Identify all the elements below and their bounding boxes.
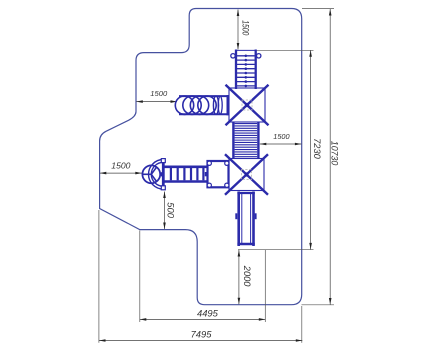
- ladder L1 (top entry ladder): [231, 50, 261, 90]
- bridge walkway: [164, 167, 207, 182]
- extension line: slide bottom to 7230 dim: [238, 249, 314, 251]
- tower platform 2 with cross braces: [225, 154, 268, 194]
- slide: [235, 192, 256, 247]
- svg-text:500: 500: [166, 202, 177, 218]
- extension line: tower 2 right edge for 4495 dim: [264, 250, 266, 322]
- svg-text:1500: 1500: [150, 89, 168, 98]
- svg-text:7230: 7230: [312, 138, 322, 160]
- dimension 1500 (upper left, outline to tube): [136, 89, 177, 103]
- dome arc panel: [149, 160, 164, 190]
- spiral crawl tube: [175, 95, 229, 115]
- svg-text:4495: 4495: [197, 308, 219, 319]
- dimension 1500 (top, outline to ladder): [237, 10, 251, 50]
- svg-text:10730: 10730: [330, 141, 340, 166]
- steering wheel: [142, 165, 160, 183]
- dimension 4495 (outline notch to tower 2 edge): [140, 308, 265, 321]
- dimension 2000 (slide bottom to outline bottom): [238, 250, 252, 304]
- dimension 1500 (right, stairs to outline): [260, 132, 302, 145]
- entry platform deck: [205, 161, 229, 187]
- extension line: ladder top to 7230 dim: [256, 49, 314, 51]
- extension line: outline bottom edge to 10730 dim: [302, 304, 335, 306]
- stairs between towers: [233, 122, 258, 159]
- bridge end post: [161, 159, 165, 190]
- extension line: outline top edge to 10730 dim: [302, 8, 334, 10]
- dimension 7495 (full width): [99, 328, 302, 342]
- safety zone outline: [100, 9, 302, 305]
- svg-text:1500: 1500: [273, 132, 289, 141]
- dimension 10730 (outline top to outline bottom): [329, 9, 340, 305]
- svg-text:1500: 1500: [240, 20, 250, 36]
- extension line: outline right edge for 7495 dim: [301, 306, 303, 343]
- extension line: outline left for 7495 dim: [98, 210, 100, 343]
- extension line: outline notch for 4495 dim: [139, 231, 141, 323]
- svg-text:2000: 2000: [242, 265, 252, 288]
- dimension 1500 (lower left, outline to wheel): [100, 161, 142, 175]
- dimension 7230 (ladder top to slide bottom): [309, 50, 322, 249]
- tower platform 1 with cross braces: [226, 85, 269, 126]
- svg-text:7495: 7495: [191, 328, 213, 339]
- svg-text:1500: 1500: [111, 161, 130, 171]
- dimension 500 (bridge to outline): [163, 192, 177, 230]
